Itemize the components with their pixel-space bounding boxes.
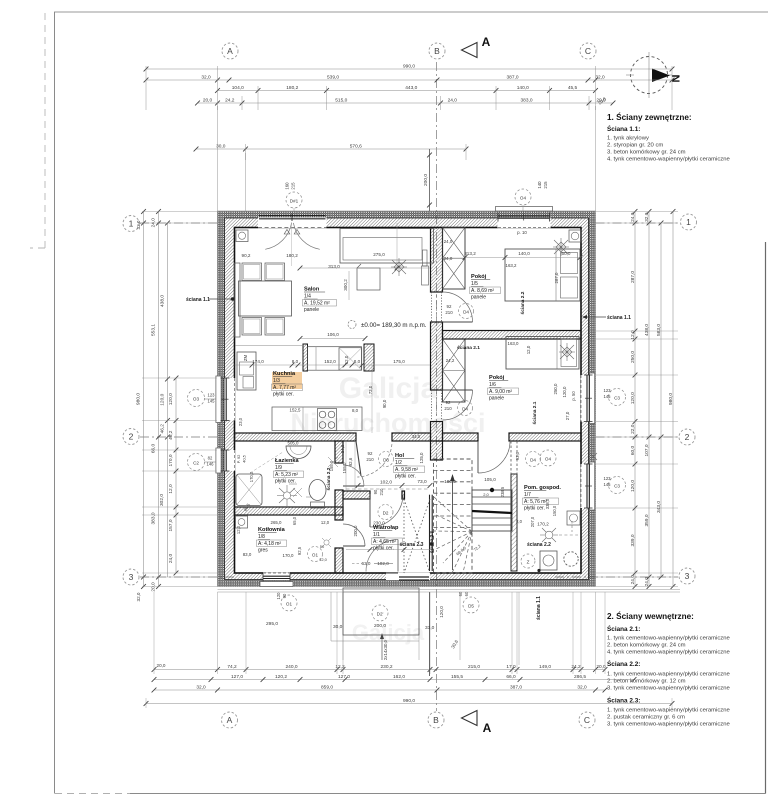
hall dashed line above wiatrolap wall [346,488,428,490]
svg-text:207,0: 207,0 [530,516,535,527]
pom gospod cross symbol [590,453,597,460]
svg-text:płytki cer.: płytki cer. [524,506,545,512]
svg-text:Ściana 2.3:: Ściana 2.3: [607,696,640,705]
svg-text:32,0: 32,0 [136,592,141,601]
axis marker B bottom [428,712,444,728]
bottom dimension row 2 [154,679,634,681]
opening window O3 left wall [224,378,235,421]
door D3 kitchen-hall [357,444,392,477]
bedroom1 bedside fixture [569,230,581,242]
top dimension 570 line [196,148,466,150]
svg-text:Salon: Salon [304,287,320,293]
sheet right border [765,242,767,794]
svg-text:ZM: ZM [243,354,248,361]
axis marker 3 right [679,568,695,584]
interior wall y433 right part (bedroom2 bottom) [443,433,479,441]
bottom dimension row 1 [154,669,605,671]
svg-text:2. Ściany wewnętrzne:: 2. Ściany wewnętrzne: [607,610,694,621]
svg-text:46,2: 46,2 [168,430,174,440]
section cut marker A bottom [462,711,478,726]
opening window O4 top wall [498,218,551,229]
door ref circle D2 [378,505,393,520]
svg-text:12,0: 12,0 [630,330,636,340]
svg-text:2,0: 2,0 [483,492,489,497]
svg-text:1: 1 [686,217,691,227]
svg-text:123: 123 [208,393,216,398]
partition sciana 2.3 dotted X wall [403,499,405,573]
svg-text:2. pustak ceramiczny gr. 6 cm: 2. pustak ceramiczny gr. 6 cm [607,715,685,721]
kitchen bottom counter [272,407,362,431]
svg-text:płytki cer.: płytki cer. [373,546,394,552]
axis 2 dash-dot right [596,436,679,438]
axis marker A bottom [222,712,238,728]
svg-text:210: 210 [444,406,452,411]
svg-text:D4: D4 [463,310,469,315]
axis marker A top [222,43,238,59]
pom gospod corner dot [537,569,540,572]
svg-text:Galicja: Galicja [339,372,438,405]
salon level mark [348,321,356,329]
svg-text:338,0: 338,0 [545,498,550,509]
svg-text:32,0: 32,0 [196,685,206,691]
kitchen peninsula stub wall right [364,344,374,371]
opening window C2 left wall [224,450,235,471]
svg-text:D2': D2' [377,612,384,617]
svg-text:1/2: 1/2 [395,460,402,466]
svg-text:Pom. gospod.: Pom. gospod. [524,485,561,491]
svg-text:200,0: 200,0 [423,174,429,186]
svg-text:92,6: 92,6 [348,457,353,466]
svg-text:Kuchnia: Kuchnia [273,371,296,377]
svg-text:170,0: 170,0 [168,454,174,466]
salon dining table [239,281,292,316]
stair right wall dashed upper part [510,441,512,474]
left dimension chain 1 [143,212,145,587]
svg-text:C3: C3 [614,484,620,489]
svg-text:3. beton komórkowy gr. 24 cm: 3. beton komórkowy gr. 24 cm [607,150,686,156]
svg-text:553,1: 553,1 [150,324,156,336]
door D6 pom gospod [478,441,510,473]
svg-text:24,0: 24,0 [630,575,636,585]
opening window O1 bottom wall [263,572,290,580]
right extension lines [596,211,678,213]
kitchen fridge box [339,348,362,371]
svg-text:8,0: 8,0 [352,408,359,413]
svg-text:B: B [433,715,439,725]
svg-text:Ściana 2.2:: Ściana 2.2: [607,659,640,668]
notes interior walls [607,610,730,728]
svg-text:92: 92 [368,451,373,456]
window C3a inner dashed [580,375,582,422]
svg-text:443,0: 443,0 [405,85,417,91]
window O1 sill [260,582,293,587]
svg-text:120: 120 [276,592,281,600]
svg-text:120,0: 120,0 [630,392,636,404]
svg-text:40,5: 40,5 [242,454,247,463]
salon chairs [242,263,262,281]
axis marker 1 right [681,214,697,230]
axis marker C top [580,43,596,59]
right dimension chain 1 [634,212,636,587]
exterior wall inner face outline [235,228,582,574]
svg-text:980,0: 980,0 [135,393,141,405]
left extension lines [142,211,217,213]
svg-text:Kotłownia: Kotłownia [258,527,286,533]
window C3b inner dashed [580,464,582,508]
window C3a frame [588,375,590,422]
svg-text:20,0: 20,0 [150,582,156,592]
svg-text:p. 10: p. 10 [517,230,527,235]
svg-text:A: 4,65 m²: A: 4,65 m² [373,539,396,545]
window O4 inner dashed [498,227,550,229]
door D4 bedroom1 [431,292,433,322]
svg-text:20,0: 20,0 [203,98,213,104]
svg-text:120,0: 120,0 [562,386,567,398]
svg-text:24,0: 24,0 [630,212,636,222]
svg-text:980,0: 980,0 [668,393,674,405]
svg-text:2x14x30,0: 2x14x30,0 [383,639,388,660]
svg-text:83,0: 83,0 [243,552,252,557]
svg-text:34,0: 34,0 [340,444,345,453]
svg-text:P. 92: P. 92 [236,454,241,464]
sheet top border [54,11,768,13]
svg-text:107,0: 107,0 [644,444,650,456]
svg-text:155,5: 155,5 [451,674,463,680]
window ref circle O1 below [281,595,297,611]
axis marker 1 left [123,216,139,232]
svg-text:230,2: 230,2 [380,664,392,670]
svg-text:A: 4,18 m²: A: 4,18 m² [258,541,281,547]
svg-text:265,0: 265,0 [271,520,283,525]
svg-text:286,5: 286,5 [574,674,586,680]
svg-text:515,0: 515,0 [335,98,347,104]
axis marker 3 left [123,569,139,585]
sheet left border [54,12,56,794]
svg-text:583,0: 583,0 [656,324,662,336]
room label kuchnia [272,372,302,389]
svg-text:539,0: 539,0 [327,75,339,81]
svg-text:149,0: 149,0 [539,664,551,670]
svg-text:300,2: 300,2 [343,279,348,291]
kitchen sink unit ZM [237,352,256,390]
svg-text:155,0: 155,0 [342,462,347,474]
opening entrance door bottom wall [386,572,430,580]
svg-text:120,0: 120,0 [168,393,174,405]
svg-text:płytki cer.: płytki cer. [275,479,296,485]
svg-text:p. 50: p. 50 [571,391,576,401]
svg-text:27,0: 27,0 [565,411,570,420]
ref circle O4 pomgospod [540,450,556,466]
svg-text:174,0: 174,0 [252,359,264,364]
top vertical dim 200 at axis B [429,149,431,211]
window O3 sill [216,376,221,423]
interior dim lines kitchen [235,364,431,366]
svg-text:2,0: 2,0 [516,519,522,524]
svg-text:162,0: 162,0 [393,674,405,680]
svg-text:150,0: 150,0 [552,505,557,516]
svg-text:170,0: 170,0 [283,553,295,558]
svg-text:287,0: 287,0 [630,271,636,283]
axis marker 2 left [123,429,139,445]
svg-text:D2: D2 [383,511,389,516]
terrace door swing arcs [265,223,291,249]
svg-text:4. tynk cementowo-wapienny/pły: 4. tynk cementowo-wapienny/płytki cerami… [607,157,730,163]
svg-text:152,5: 152,5 [290,408,302,413]
svg-text:8,0: 8,0 [354,359,361,364]
central wall axis B segment 2 (between doors) [431,322,443,390]
entry stair arrow [381,636,383,660]
door D2 wiatrolap-hall [370,495,403,527]
svg-text:120,0: 120,0 [630,480,636,492]
left window ref circle O3 [188,390,205,407]
svg-text:275,0: 275,0 [373,252,385,257]
svg-text:210: 210 [445,310,453,315]
svg-text:505,0: 505,0 [288,441,300,446]
svg-text:ściana 2.2: ściana 2.2 [326,467,332,490]
kotlownia boiler [236,516,248,528]
svg-text:120,2: 120,2 [275,674,287,680]
staircase start dot [490,488,494,492]
central wall axis B segment 3 [431,422,443,442]
axis marker B top [429,43,445,59]
footing lines below bottom wall [218,589,681,591]
window O4 frame [498,215,550,217]
svg-text:Pokój: Pokój [489,375,505,381]
axis marker 2 right [679,429,695,445]
svg-text:1/6: 1/6 [489,382,496,388]
axis B dash-dot line [436,62,438,711]
svg-text:215: 215 [291,182,296,190]
window C2 frame [223,450,225,471]
svg-text:C: C [584,715,590,725]
svg-text:82: 82 [208,456,213,461]
svg-text:płytki cer.: płytki cer. [273,392,294,398]
bedroom1 bed [505,249,580,301]
svg-text:C3: C3 [614,396,620,401]
svg-text:1/1: 1/1 [373,532,380,538]
right dimension chain 2 [648,212,650,587]
interior wall y433 right part 2 [509,433,581,441]
interior wall vertical bath/kotlownia east [335,441,343,463]
svg-text:12,2: 12,2 [335,664,345,670]
svg-text:1. tynk cementowo-wapienny/pły: 1. tynk cementowo-wapienny/płytki cerami… [607,708,730,714]
svg-text:A: A [227,46,233,56]
svg-text:A. 19,52 m²: A. 19,52 m² [304,301,330,307]
door ref circle D2' [372,605,388,621]
svg-text:D5: D5 [468,604,474,609]
interior dim lines bedroom1 [465,257,581,259]
svg-text:12,0: 12,0 [321,520,330,525]
svg-text:ściana 2.1: ściana 2.1 [532,401,538,424]
north compass [626,52,683,98]
svg-text:72,0: 72,0 [368,385,373,394]
door kotlownia [343,524,365,546]
window O3 frame [223,378,225,421]
staircase walk line with arrow [452,478,454,570]
staircase solid treads [472,490,512,531]
svg-text:2: 2 [129,432,134,442]
bottom dimension row 4 [146,703,672,705]
svg-text:66,0: 66,0 [506,674,516,680]
top dimension row 3 [218,90,596,92]
interior wall bedroom1/bedroom2 [443,331,582,340]
svg-text:200,0: 200,0 [353,525,358,537]
svg-text:383,0: 383,0 [150,512,156,524]
svg-text:2. styropian gr. 20 cm: 2. styropian gr. 20 cm [607,143,663,149]
svg-text:1/7: 1/7 [524,492,531,498]
exterior wall insulation ring [218,211,596,587]
staircase dashed flight [434,459,473,573]
svg-text:24,0: 24,0 [444,256,453,261]
left dimension chain 4 [175,378,177,573]
entrance door leaf and frame [399,576,429,578]
svg-text:1/4: 1/4 [304,294,311,300]
axis 3 dash-dot left [140,576,235,578]
door ref circle D4 pomgospod [526,452,541,467]
svg-text:D3: D3 [383,458,389,463]
salon corner vent box [236,230,248,242]
svg-text:160: 160 [285,182,290,190]
svg-text:N: N [671,74,683,82]
svg-text:90: 90 [282,593,287,598]
svg-text:295,0: 295,0 [266,621,278,627]
sheet bottom border [55,793,130,795]
svg-text:120,0: 120,0 [159,393,165,405]
terrace door D1 leaves [259,215,326,217]
svg-text:24,2: 24,2 [225,98,235,104]
svg-text:20,0: 20,0 [596,664,606,670]
svg-text:O4: O4 [520,196,527,201]
entry landing [343,588,419,635]
svg-text:120,0: 120,0 [439,606,444,618]
svg-text:74,2: 74,2 [227,664,237,670]
svg-text:339,0: 339,0 [630,534,636,546]
door ref circle D4 bedroom1 [459,304,474,319]
svg-text:570,6: 570,6 [350,144,362,150]
opening window C3a right wall [581,375,590,422]
svg-text:123: 123 [604,476,612,481]
svg-text:125,0: 125,0 [419,452,424,464]
kitchen stove [318,409,337,431]
kitchen peninsula stub wall left [303,344,308,371]
svg-text:302,0: 302,0 [159,494,165,506]
svg-text:90: 90 [373,489,378,494]
top dimension row 990 [146,68,672,70]
axis marker C bottom [579,712,595,728]
svg-text:Hol: Hol [395,453,404,459]
sheet fold dashed line left [44,13,46,248]
svg-text:A: 5,76 m²: A: 5,76 m² [524,499,547,505]
svg-text:panele: panele [471,295,486,301]
svg-text:24,0: 24,0 [150,218,156,228]
window O1 frame [263,575,290,577]
svg-text:66,0: 66,0 [150,444,156,454]
door ref circle D4 bedroom2 [458,401,473,416]
svg-text:Ściana 1.1:: Ściana 1.1: [607,124,640,133]
kitchen counter top edge line [235,345,303,347]
svg-text:215: 215 [543,181,548,189]
svg-text:24,0: 24,0 [448,98,458,104]
svg-text:A: A [227,715,233,725]
svg-text:1/3: 1/3 [273,378,280,384]
salon tv board [235,263,241,337]
top door ref circle D1 [286,192,302,208]
axis 3 dash-dot right [555,576,678,578]
ref circle O1 kotlownia [308,547,323,562]
svg-text:127,0: 127,0 [231,674,243,680]
svg-text:170,0: 170,0 [249,471,254,482]
svg-text:22,0: 22,0 [630,424,636,434]
symbol star hall [328,457,338,467]
svg-text:A. 9,00 m²: A. 9,00 m² [489,389,512,395]
svg-text:23,0: 23,0 [238,417,243,426]
svg-text:238,5: 238,5 [500,486,505,497]
svg-text:230,0: 230,0 [373,521,385,526]
terrace door inner face dashed line [258,227,327,229]
svg-text:438,0: 438,0 [644,324,650,336]
svg-text:106,0: 106,0 [327,332,339,337]
duct shaft lower (bedroom2) [443,339,466,402]
svg-text:65,0: 65,0 [292,516,297,525]
svg-text:250,0: 250,0 [553,383,558,395]
svg-text:73,0: 73,0 [417,479,427,485]
opening window C3b right wall [581,464,590,508]
window C2 sill [216,448,221,473]
svg-text:383,0: 383,0 [520,98,532,104]
svg-text:313,0: 313,0 [328,264,340,269]
svg-text:50: 50 [320,544,325,549]
svg-text:12,0: 12,0 [319,557,328,562]
svg-text:3. tynk cementowo-wapienny/pły: 3. tynk cementowo-wapienny/płytki cerami… [607,686,730,692]
interior dim lines hall [345,441,347,491]
svg-text:panele: panele [489,396,504,402]
right dimension chain 4 [672,212,674,587]
axis 2 dash-dot left [140,436,218,438]
svg-text:145: 145 [604,482,612,487]
svg-text:A. 8,69 m²: A. 8,69 m² [471,288,494,294]
window O1 inner dashed [263,572,290,574]
svg-text:175,0: 175,0 [393,359,405,364]
door D4 bedroom2 [431,390,433,420]
right window ref circle C3b [609,477,626,494]
duct shaft top (bedroom1) [443,228,466,290]
svg-text:A: A [482,35,491,49]
svg-text:92,0: 92,0 [515,451,520,460]
svg-text:102,0: 102,0 [380,480,392,486]
svg-text:ściana 2.1: ściana 2.1 [457,345,480,351]
below building dimension lines [330,592,332,641]
symbol cross kitchen [289,484,311,497]
svg-text:12,0: 12,0 [344,355,349,364]
svg-text:1: 1 [129,219,134,229]
svg-text:1/9: 1/9 [275,465,282,471]
stair right wall [511,474,517,571]
svg-text:104,0: 104,0 [232,85,244,91]
svg-text:Z: Z [527,560,530,565]
svg-text:ściana 2.2: ściana 2.2 [520,291,526,314]
svg-text:140,0: 140,0 [518,251,530,256]
staircase cut line thick [472,511,512,513]
svg-text:32,0: 32,0 [644,212,650,222]
svg-text:46,2: 46,2 [159,424,165,434]
svg-text:O1: O1 [312,553,319,558]
svg-text:90,2: 90,2 [242,253,251,258]
svg-text:210: 210 [379,488,384,496]
top dimension row 2 [146,79,672,81]
svg-text:92: 92 [447,304,452,309]
svg-text:170,2: 170,2 [537,522,549,527]
window O3 inner dashed [234,378,236,421]
